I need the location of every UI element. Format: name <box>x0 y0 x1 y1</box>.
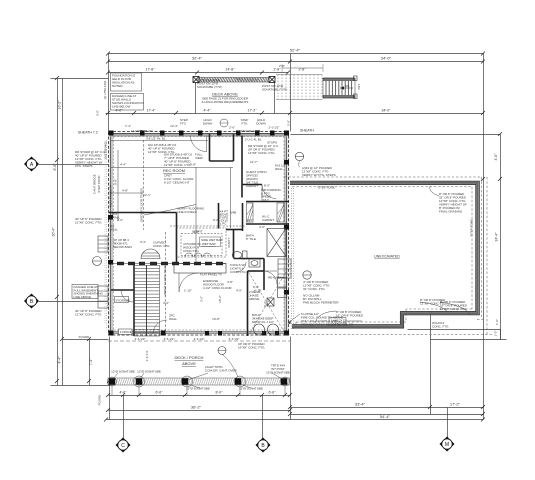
svg-text:6'-0": 6'-0" <box>253 285 259 289</box>
svg-text:FURNCE: FURNCE <box>120 330 132 334</box>
svg-text:1'-0": 1'-0" <box>494 331 498 337</box>
svg-text:12"Ø SONATUBE: 12"Ø SONATUBE <box>239 387 263 391</box>
svg-text:4 1/2" CONC FLOOR: 4 1/2" CONC FLOOR <box>203 286 232 290</box>
svg-text:33'-4": 33'-4" <box>355 402 366 407</box>
svg-text:NOTED: NOTED <box>112 84 123 88</box>
svg-text:STORAGE: STORAGE <box>116 299 131 303</box>
svg-text:8'-0": 8'-0" <box>264 184 270 188</box>
svg-text:3'-4": 3'-4" <box>140 240 146 244</box>
svg-text:9'-8": 9'-8" <box>190 163 196 167</box>
svg-text:DROP-DL 1 1/2": DROP-DL 1 1/2" <box>252 320 274 324</box>
svg-text:3'-6": 3'-6" <box>200 296 204 302</box>
svg-text:7'-4": 7'-4" <box>125 124 131 128</box>
svg-text:WALL: WALL <box>169 317 177 321</box>
svg-text:14R: 14R <box>357 84 361 90</box>
svg-text:WET BAR: WET BAR <box>202 242 216 246</box>
svg-text:32'-4": 32'-4" <box>192 56 203 61</box>
svg-text:4'-6 1/2": 4'-6 1/2" <box>194 337 205 341</box>
svg-text:LASTD DELMGR: LASTD DELMGR <box>237 129 261 133</box>
svg-text:5" TILE: 5" TILE <box>246 237 256 241</box>
svg-text:TRTD 3-2X12-2A: TRTD 3-2X12-2A <box>235 78 258 82</box>
svg-text:ABOVE: ABOVE <box>182 361 196 366</box>
svg-text:WALL: WALL <box>275 167 283 171</box>
svg-text:LINE IN FIELD: LINE IN FIELD <box>177 210 198 214</box>
svg-text:CONC FTG: CONC FTG <box>183 249 199 253</box>
svg-text:CANT BRDGE: CANT BRDGE <box>93 174 97 194</box>
svg-text:4'-6 1/2": 4'-6 1/2" <box>229 337 240 341</box>
svg-text:34'-0": 34'-0" <box>382 109 392 113</box>
svg-text:4'-6": 4'-6" <box>494 153 498 161</box>
svg-text:SHEATH: SHEATH <box>300 129 314 133</box>
svg-text:14'-8": 14'-8" <box>226 68 236 72</box>
svg-text:(3)1759 4462: (3)1759 4462 <box>104 141 108 159</box>
svg-text:CONC. FTG: CONC. FTG <box>432 325 449 329</box>
svg-text:DOWN: DOWN <box>203 122 213 126</box>
svg-text:16" OR 8" POURED: 16" OR 8" POURED <box>336 314 364 318</box>
svg-text:4'-10": 4'-10" <box>254 289 262 293</box>
svg-text:DECK / PORCH: DECK / PORCH <box>175 355 204 360</box>
svg-text:FLAT PANEL TV: FLAT PANEL TV <box>109 185 113 207</box>
svg-text:FTG: FTG <box>180 122 187 126</box>
svg-text:9'-0": 9'-0" <box>213 218 219 222</box>
svg-text:17'-2": 17'-2" <box>450 402 461 407</box>
svg-text:9'-8": 9'-8" <box>114 179 118 185</box>
svg-text:36'-2": 36'-2" <box>191 405 202 410</box>
svg-text:C: C <box>121 443 125 449</box>
svg-text:DOWN: DOWN <box>256 122 266 126</box>
svg-text:17'-2": 17'-2" <box>248 109 258 113</box>
svg-text:30'-4": 30'-4" <box>52 227 56 237</box>
svg-text:DN: DN <box>345 84 349 88</box>
svg-text:2 U-C 4L BL: 2 U-C 4L BL <box>245 138 262 142</box>
svg-text:FINAL GRADING: FINAL GRADING <box>439 210 463 214</box>
svg-text:1'-6": 1'-6" <box>495 319 499 325</box>
svg-text:SHEATH 7.2: SHEATH 7.2 <box>78 131 98 135</box>
svg-text:2'-8": 2'-8" <box>299 68 307 72</box>
svg-text:4'-4": 4'-4" <box>120 163 126 167</box>
svg-text:12"X8" CONC. FTG: 12"X8" CONC. FTG <box>75 313 102 317</box>
svg-text:1'-6 3'-0: 1'-6 3'-0 <box>145 350 149 361</box>
svg-text:12"X8" CONC. FTG: 12"X8" CONC. FTG <box>440 307 467 311</box>
svg-text:FOUND: FOUND <box>98 394 102 405</box>
svg-text:PHE BLOCK PERIMETER: PHE BLOCK PERIMETER <box>303 301 339 305</box>
svg-text:1'-10": 1'-10" <box>184 289 192 293</box>
svg-text:UNEXCAVATED: UNEXCAVATED <box>374 255 400 259</box>
svg-text:3'-0": 3'-0" <box>163 301 169 305</box>
svg-text:CARPET: CARPET <box>262 218 274 222</box>
svg-text:6'-6": 6'-6" <box>156 391 164 395</box>
svg-text:4'-0": 4'-0" <box>236 289 242 293</box>
svg-text:12'-4": 12'-4" <box>170 124 178 128</box>
svg-text:FOUND: FOUND <box>79 335 90 339</box>
svg-text:FTG: FTG <box>242 122 249 126</box>
svg-text:4'-6 1/2": 4'-6 1/2" <box>164 337 175 341</box>
svg-text:6'-6": 6'-6" <box>269 391 277 395</box>
svg-text:4'-4": 4'-4" <box>58 356 62 364</box>
svg-text:24'-4": 24'-4" <box>495 232 499 242</box>
svg-text:SONATUBE (TYP.): SONATUBE (TYP.) <box>262 88 287 92</box>
svg-text:ONLY: ONLY <box>261 198 269 202</box>
svg-text:5/4B: 5/4B <box>230 211 236 215</box>
svg-text:STEP CONC: STEP CONC <box>97 174 101 192</box>
svg-text:12"Ø SONATUBE: 12"Ø SONATUBE <box>186 387 210 391</box>
svg-text:4'-8": 4'-8" <box>122 189 128 193</box>
svg-text:4'-0": 4'-0" <box>259 225 265 229</box>
svg-text:WALL: WALL <box>110 228 118 232</box>
svg-text:52'-4": 52'-4" <box>290 48 301 53</box>
svg-text:4'-6 1/2": 4'-6 1/2" <box>135 337 146 341</box>
svg-text:12'-1": 12'-1" <box>143 193 151 197</box>
svg-text:2'-0": 2'-0" <box>287 120 291 126</box>
svg-text:L4 ASTD-36 OR: L4 ASTD-36 OR <box>131 129 154 133</box>
svg-text:4'-6": 4'-6" <box>120 391 128 395</box>
svg-text:"STEP FDNE: "STEP FDNE <box>470 219 474 237</box>
svg-text:UNDER FLOOR TRUSS: UNDER FLOOR TRUSS <box>163 264 167 297</box>
svg-text:LINE BELOW: LINE BELOW <box>112 105 131 109</box>
svg-text:LINE ABOVE: LINE ABOVE <box>74 295 92 299</box>
svg-text:4'-4": 4'-4" <box>193 230 199 234</box>
svg-text:M: M <box>445 442 449 448</box>
svg-text:BELOW 8A84: BELOW 8A84 <box>113 245 132 249</box>
svg-text:FTG. STEPS: FTG. STEPS <box>75 164 93 168</box>
svg-text:54'-4": 54'-4" <box>380 414 391 419</box>
svg-text:10'-8": 10'-8" <box>212 317 220 321</box>
svg-text:VIEW: VIEW <box>195 156 203 160</box>
svg-text:17'-8": 17'-8" <box>146 68 156 72</box>
svg-text:6'-2": 6'-2" <box>263 301 267 307</box>
svg-text:12"Ø SONATUBE: 12"Ø SONATUBE <box>266 371 290 375</box>
svg-text:34'-0": 34'-0" <box>381 56 392 61</box>
svg-text:10'-2": 10'-2" <box>58 100 62 110</box>
svg-text:8 1/2" CEILING HT: 8 1/2" CEILING HT <box>164 181 190 185</box>
svg-text:8'-6": 8'-6" <box>53 163 57 171</box>
svg-text:4'-6": 4'-6" <box>247 218 253 222</box>
svg-text:CONC FTG: CONC FTG <box>331 322 347 326</box>
svg-text:4'-8": 4'-8" <box>227 280 233 284</box>
svg-text:(3) 1759 4462: (3) 1759 4462 <box>103 80 107 99</box>
svg-text:CONC. FTG: CONC. FTG <box>153 244 170 248</box>
svg-text:2'-0 1/2": 2'-0 1/2" <box>269 126 280 130</box>
svg-text:2'-6": 2'-6" <box>229 126 235 130</box>
svg-text:4'-4": 4'-4" <box>204 109 212 113</box>
svg-text:VERIFY W/ FTG. STEPS: VERIFY W/ FTG. STEPS <box>302 173 336 177</box>
svg-text:4'-0": 4'-0" <box>117 218 123 222</box>
svg-text:32" CONC. FTG: 32" CONC. FTG <box>303 287 325 291</box>
svg-text:FL PC: FL PC <box>218 222 227 226</box>
svg-text:12"Ø SONATUBE: 12"Ø SONATUBE <box>137 370 161 374</box>
svg-text:3'-0": 3'-0" <box>96 110 100 116</box>
svg-text:12"X8" CONC. FTG.: 12"X8" CONC. FTG. <box>248 151 275 155</box>
svg-text:12"X8" CONC. FTG: 12"X8" CONC. FTG <box>164 163 191 167</box>
svg-text:3-8 1/2" IN. BL.: 3-8 1/2" IN. BL. <box>146 137 167 141</box>
svg-text:REC ROOM: REC ROOM <box>163 168 185 173</box>
svg-text:5 DIA DR. CANT OVER: 5 DIA DR. CANT OVER <box>205 369 237 373</box>
svg-text:8'-0": 8'-0" <box>216 391 224 395</box>
svg-text:ABOVE: ABOVE <box>249 297 259 301</box>
svg-text:17'-4": 17'-4" <box>147 109 157 113</box>
svg-text:12"Ø SONATUBE: 12"Ø SONATUBE <box>111 370 135 374</box>
svg-text:FLAT PANEL TV: FLAT PANEL TV <box>200 273 222 277</box>
svg-text:CONC FTG: CONC FTG <box>230 270 246 274</box>
svg-text:2'-8": 2'-8" <box>279 64 285 68</box>
svg-text:12"X8" CONC. FTG: 12"X8" CONC. FTG <box>75 221 102 225</box>
svg-text:& HOLD-DOWN REQUIREMENTS: & HOLD-DOWN REQUIREMENTS <box>202 100 249 104</box>
svg-text:CARPET: CARPET <box>246 184 258 188</box>
svg-text:18'-2": 18'-2" <box>218 295 222 303</box>
svg-text:VANITY: VANITY <box>227 237 231 248</box>
svg-text:12'-7": 12'-7" <box>250 160 258 164</box>
svg-text:2'-8": 2'-8" <box>274 68 282 72</box>
svg-text:4'-0": 4'-0" <box>116 109 124 113</box>
svg-text:RE-6 SEAL: RE-6 SEAL <box>268 276 284 280</box>
svg-text:16"X8" CONC. FTG.: 16"X8" CONC. FTG. <box>238 346 265 350</box>
svg-text:SONATUBE (TYP.): SONATUBE (TYP.) <box>197 85 222 89</box>
svg-text:"STEP FDNE: "STEP FDNE <box>317 186 335 190</box>
svg-text:7'-4": 7'-4" <box>89 358 93 366</box>
